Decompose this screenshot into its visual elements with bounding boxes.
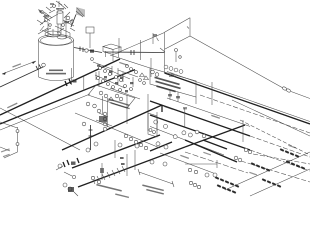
text block middle right xyxy=(150,68,196,97)
descending bold D2 xyxy=(150,115,310,171)
dim text smudges mid xyxy=(164,106,220,119)
small text bottom-right xyxy=(203,145,296,176)
thin crossers left xyxy=(0,94,90,150)
balloons middle band xyxy=(154,120,193,149)
balloons lower-right of center xyxy=(163,130,206,174)
tank label 2-400 xyxy=(46,70,66,75)
pipe D3 bottom-right xyxy=(185,140,310,182)
valve cluster bottom-middle xyxy=(96,113,112,126)
tank support legs xyxy=(72,68,119,91)
small drops below text block xyxy=(168,90,180,102)
survey flag xyxy=(71,7,85,27)
wall panel xyxy=(153,18,190,73)
tank T-400 body xyxy=(39,35,74,81)
main pipe R2 with hatch xyxy=(78,125,245,187)
circles diag row mid-low xyxy=(124,134,147,149)
text smudges bottom xyxy=(96,184,164,198)
dim lines bottom-right-middle xyxy=(160,153,217,174)
instrument stem xyxy=(175,49,182,63)
support box xyxy=(103,44,121,61)
pipe T1 to right xyxy=(190,36,310,99)
main pipe B2 xyxy=(165,72,311,134)
riser right of tank xyxy=(86,27,119,52)
thin lines bottom-right xyxy=(185,100,310,196)
risers middle xyxy=(103,40,157,131)
descending bold D1 xyxy=(150,101,310,157)
pipe P1 upper-left xyxy=(0,63,45,87)
corner fitting bottom-left xyxy=(63,183,78,196)
balloons bottom-middle xyxy=(82,102,154,184)
nozzle cluster on tank top xyxy=(37,1,75,39)
risers bottom-middle xyxy=(100,140,135,180)
mini pipes in cluster xyxy=(91,58,146,99)
narrow panel mid-low xyxy=(148,113,157,137)
flange rows bottom-right xyxy=(189,148,305,194)
tank nozzle pipe xyxy=(74,47,102,53)
balloon cluster middle xyxy=(97,65,149,92)
vertical risers right-mid xyxy=(183,82,243,142)
left wall corner xyxy=(0,103,19,158)
thin descenders middle xyxy=(75,98,250,155)
pipe B1a with flanges xyxy=(0,59,120,115)
dimension line D1 xyxy=(2,61,36,75)
pipe M1a horizontal xyxy=(104,48,165,55)
pad panel xyxy=(88,85,135,109)
tank dome xyxy=(45,31,67,39)
main pipe B1b xyxy=(0,70,135,124)
dim line bottom-middle xyxy=(138,169,174,187)
pipe M1b branch xyxy=(110,55,150,68)
bold stub rising xyxy=(150,142,172,151)
balloons row mid-right xyxy=(164,65,183,76)
riser with flanges x90 xyxy=(89,125,93,150)
main pipe B mid rising xyxy=(62,105,162,150)
pipe rising to wall corner xyxy=(118,33,165,53)
tiny labels far bottom-left xyxy=(0,147,10,157)
main pipe R1 xyxy=(56,135,160,179)
